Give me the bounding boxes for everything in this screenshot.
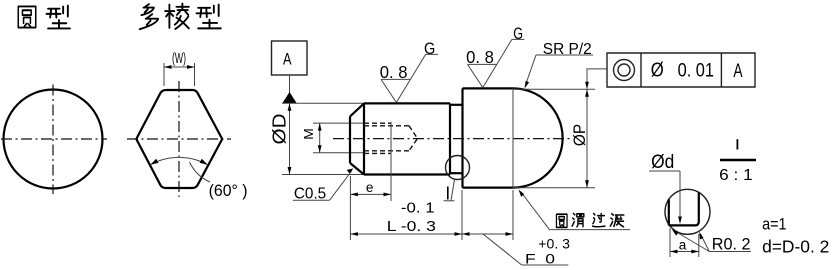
- detail I underline: [444, 200, 455, 202]
- (W) dimension line: [164, 66, 195, 68]
- ØD top extension line: [282, 102, 364, 104]
- svg-text:M: M: [301, 128, 316, 140]
- ØD bottom extension line: [282, 174, 364, 176]
- detail view circle: [665, 189, 710, 234]
- ØD dimension line: [289, 103, 291, 174]
- a dimension line: [670, 251, 699, 253]
- F underline: [522, 264, 569, 266]
- svg-text:ØD: ØD: [270, 113, 290, 144]
- feature control frame box: [607, 53, 755, 87]
- ØD arrow up: [288, 103, 292, 111]
- L dimension line: [350, 233, 462, 235]
- e left extension line (shared with L): [349, 176, 351, 240]
- svg-text:(60° ): (60° ): [209, 182, 248, 200]
- flange-face extension line: [461, 190, 463, 240]
- concentricity symbol: [614, 60, 635, 81]
- node label 多棱型 (multi-edge type, hand-drawn strokes): [140, 4, 158, 29]
- thread minor diameter hidden lines: [364, 126, 409, 151]
- F dimension line: [462, 233, 513, 235]
- datum filled triangle: [282, 92, 296, 103]
- F leader: [483, 234, 522, 265]
- detail: groove surface with fillet: [669, 193, 699, 226]
- a left extension line: [669, 228, 671, 257]
- ØP top extension line: [513, 88, 595, 90]
- C0.5 underline: [293, 199, 330, 201]
- svg-text:-0. 1: -0. 1: [401, 201, 435, 217]
- (W) arrow right: [187, 65, 195, 69]
- ØP dimension line: [586, 89, 588, 188]
- thread depth line / e extension line: [390, 122, 392, 201]
- svg-text:ØP: ØP: [571, 124, 589, 146]
- Ød underline: [649, 170, 680, 172]
- SR P/2 underline: [536, 54, 593, 56]
- feature control frame leader: [587, 69, 607, 85]
- surface finish symbol 2 on flange: [468, 39, 525, 87]
- R0.2 left arrowhead: [672, 229, 679, 235]
- detail scale label I: [736, 139, 738, 149]
- (W) extension line left: [163, 63, 165, 86]
- ØD arrow down: [288, 167, 292, 175]
- svg-text:A: A: [733, 61, 742, 82]
- ØP bottom extension line: [513, 187, 595, 189]
- smooth transition underline: [549, 229, 630, 231]
- 60-degree arc arrow left: [150, 159, 158, 165]
- L arrow right: [455, 232, 463, 236]
- detail I circle on part: [446, 156, 470, 180]
- thread major diameter hidden lines: [364, 123, 391, 153]
- svg-text:L -0. 3: L -0. 3: [387, 219, 436, 235]
- R0.2 leader to left corner: [674, 231, 710, 252]
- drill point hidden V: [409, 126, 418, 151]
- sphere tangent line: [512, 88, 514, 187]
- smooth transition leader: [521, 192, 549, 230]
- C0.5 leader: [330, 171, 353, 201]
- svg-text:(W): (W): [172, 51, 186, 67]
- node label 圆型 (round type, hand-drawn strokes): [18, 6, 35, 27]
- FCF leader arrowhead: [585, 82, 589, 90]
- R0.2 leader to right fillet: [701, 234, 710, 252]
- e arrow left: [350, 193, 358, 197]
- ØP arrow up: [585, 89, 589, 97]
- smooth transition label 圆滑过渡 (hand-drawn): [556, 214, 567, 227]
- C0.5 arrowhead: [347, 168, 354, 173]
- datum box A: [272, 41, 308, 75]
- detail I label: [447, 187, 449, 200]
- leader arc to 60-degree label: [190, 162, 211, 182]
- M dimension line: [319, 123, 321, 153]
- 60-degree arc arrow right: [200, 159, 208, 165]
- svg-text:G: G: [513, 24, 523, 43]
- svg-text:Ø: Ø: [651, 60, 664, 82]
- F arrow right: [506, 232, 514, 236]
- hexagon horizontal centerline: [127, 138, 231, 140]
- svg-text:A: A: [283, 50, 292, 69]
- datum leader: [289, 75, 291, 93]
- neck groove top edge: [450, 104, 463, 106]
- (W) extension line right: [194, 63, 196, 86]
- Ød leader: [679, 171, 681, 220]
- svg-text:d=D-0. 2: d=D-0. 2: [762, 236, 829, 256]
- F arrow left: [462, 232, 470, 236]
- neck groove bottom edge: [450, 172, 463, 174]
- circle view horizontal centerline: [1, 138, 107, 140]
- F extension line right: [512, 190, 514, 240]
- M arrow up: [318, 123, 322, 131]
- spherical head arc SR P/2: [513, 88, 563, 187]
- svg-text:e: e: [366, 180, 374, 195]
- hexagon view outline: [136, 90, 222, 188]
- svg-text:a=1: a=1: [762, 214, 787, 233]
- svg-text:G: G: [424, 39, 435, 58]
- svg-text:+0. 3: +0. 3: [538, 235, 570, 251]
- flange outline: [463, 88, 514, 187]
- detail: cylinder end face edge: [668, 199, 670, 225]
- L arrow left: [350, 232, 358, 236]
- svg-text:6 : 1: 6 : 1: [719, 167, 753, 184]
- svg-text:0. 01: 0. 01: [678, 61, 714, 82]
- hexagon vertical centerline: [178, 81, 180, 197]
- circle view outline: [4, 90, 103, 189]
- svg-text:R0. 2: R0. 2: [712, 234, 751, 253]
- ØP arrow down: [585, 180, 589, 188]
- M bottom extension line: [313, 152, 364, 154]
- a arrow left: [670, 250, 678, 254]
- a right extension line: [698, 234, 700, 257]
- Ød arrowhead: [678, 217, 682, 225]
- M arrow down: [318, 145, 322, 153]
- svg-text:a: a: [679, 238, 687, 253]
- circle view vertical centerline: [52, 85, 54, 195]
- SR P/2 arrowhead: [525, 81, 530, 89]
- SR P/2 leader: [526, 55, 537, 85]
- a arrow right: [691, 250, 699, 254]
- detail I leader: [451, 180, 455, 201]
- R0.2 underline: [709, 251, 751, 253]
- R0.2 right arrowhead: [699, 232, 703, 240]
- svg-text:0. 8: 0. 8: [380, 62, 408, 82]
- svg-text:0. 8: 0. 8: [466, 47, 494, 67]
- surface finish symbol 1 on cylinder: [381, 54, 438, 102]
- M top extension line: [313, 122, 364, 124]
- e dimension line: [350, 193, 391, 195]
- smooth transition arrowhead: [519, 190, 525, 197]
- detail scale bar: [720, 159, 756, 161]
- 60-degree dimension arc: [150, 157, 207, 164]
- part axis centerline: [333, 138, 572, 140]
- e arrow right: [384, 193, 392, 197]
- svg-text:Ød: Ød: [651, 152, 674, 173]
- svg-text:F 0: F 0: [525, 250, 555, 266]
- pin body: left cylinder outline: [350, 103, 450, 174]
- (W) arrow left: [164, 65, 172, 69]
